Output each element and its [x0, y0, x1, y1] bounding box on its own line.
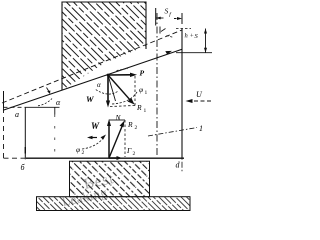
- wedge bottom dashed left part: [4, 157, 27, 159]
- svg-text:N: N: [115, 113, 122, 122]
- svg-text:P: P: [140, 69, 145, 78]
- force R1 diagonal: [108, 75, 135, 105]
- force W down: [106, 75, 110, 108]
- small tick arrow between L1 and L2: [47, 88, 51, 95]
- phi2 arc: [82, 137, 104, 149]
- dash-dot displaced edge line x=157: [156, 13, 158, 155]
- wedge displaced surface dashed L1: [2, 30, 182, 103]
- normal direction line N1: [108, 75, 116, 101]
- force F2: [109, 156, 122, 160]
- dash-dot extension below d: [181, 158, 183, 172]
- dimension Sf tick right: [181, 13, 183, 24]
- svg-text:1: 1: [199, 124, 203, 133]
- parallelogram dashed vertical: [134, 76, 136, 106]
- arrow U: [186, 99, 212, 103]
- wedge top surface solid L2: [3, 49, 182, 110]
- phi1 arc: [112, 92, 137, 104]
- svg-text:1: 1: [144, 108, 147, 114]
- svg-text:+: +: [190, 33, 194, 40]
- wedge bottom line: [26, 157, 184, 159]
- svg-text:W: W: [91, 121, 100, 131]
- svg-text:Γ: Γ: [126, 146, 132, 155]
- dimension Sf tick left: [155, 8, 157, 26]
- h+S dimension line with arrows: [204, 29, 207, 53]
- wedge right edge: [181, 29, 183, 159]
- force P: [108, 73, 137, 77]
- force N2 up: [107, 119, 111, 158]
- svg-text:h: h: [185, 33, 188, 40]
- svg-text:φ: φ: [139, 85, 143, 94]
- svg-text:R: R: [136, 103, 142, 112]
- vertical construction line: [54, 107, 56, 114]
- dimension a horizontal line: [4, 106, 26, 108]
- svg-text:α: α: [97, 81, 101, 89]
- svg-text:1: 1: [145, 90, 148, 96]
- svg-text:2: 2: [82, 150, 85, 156]
- parallelogram right dashed: [124, 120, 126, 157]
- svg-text:R: R: [127, 120, 133, 129]
- h+S top tick: [176, 28, 191, 30]
- wedge left edge: [3, 91, 5, 108]
- W small arrow: [87, 136, 97, 139]
- svg-text:a: a: [15, 110, 19, 119]
- svg-text:2: 2: [133, 151, 136, 157]
- svg-text:S: S: [165, 7, 169, 16]
- ram block (hatched): [62, 2, 146, 90]
- svg-text:2: 2: [135, 125, 138, 131]
- svg-text:φ: φ: [76, 145, 80, 154]
- parallelogram top: [109, 119, 125, 121]
- leader for 1: [148, 128, 197, 137]
- dimension Sf arrow left: [156, 17, 164, 20]
- support block (hatched): [70, 161, 150, 197]
- small alpha arc at vertex: [96, 90, 118, 94]
- small marks below Sf tick: [159, 27, 161, 34]
- wedge left edge dashed lower: [3, 108, 5, 158]
- dimension Sf dashed arrow right: [174, 17, 182, 20]
- small dashed arc right of vertex: [117, 69, 128, 71]
- tick b: [24, 107, 26, 159]
- node vertex: [107, 74, 110, 77]
- alpha arc left: [38, 99, 52, 106]
- base bar (hatched): [37, 197, 191, 211]
- parallelogram dashed bottom: [110, 106, 135, 107]
- arrowhead on wedge surface line: [165, 51, 172, 55]
- h+S bottom line: [176, 52, 212, 54]
- force R2 diagonal: [109, 121, 125, 159]
